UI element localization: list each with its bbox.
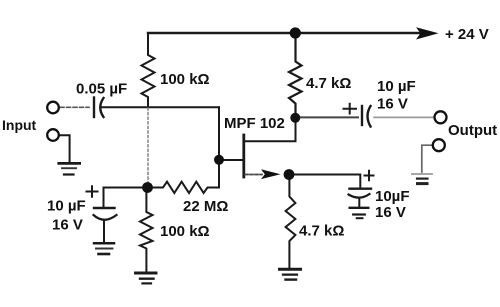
svg-text:4.7 kΩ: 4.7 kΩ <box>306 75 351 92</box>
svg-text:+ 24 V: + 24 V <box>445 26 489 43</box>
svg-text:MPF 102: MPF 102 <box>224 115 285 132</box>
svg-text:Input: Input <box>2 117 37 133</box>
svg-text:10µF: 10µF <box>375 188 410 205</box>
svg-text:0.05 µF: 0.05 µF <box>76 81 127 98</box>
svg-text:16 V: 16 V <box>52 217 83 234</box>
svg-text:16 V: 16 V <box>377 96 408 113</box>
svg-text:10 µF: 10 µF <box>47 198 86 215</box>
svg-text:16 V: 16 V <box>375 204 406 221</box>
svg-text:10 µF: 10 µF <box>377 78 416 95</box>
svg-text:100 kΩ: 100 kΩ <box>160 223 210 240</box>
svg-text:100 kΩ: 100 kΩ <box>160 71 210 88</box>
svg-text:4.7 kΩ: 4.7 kΩ <box>299 223 344 240</box>
svg-text:22 MΩ: 22 MΩ <box>183 198 228 215</box>
svg-text:Output: Output <box>448 122 497 139</box>
